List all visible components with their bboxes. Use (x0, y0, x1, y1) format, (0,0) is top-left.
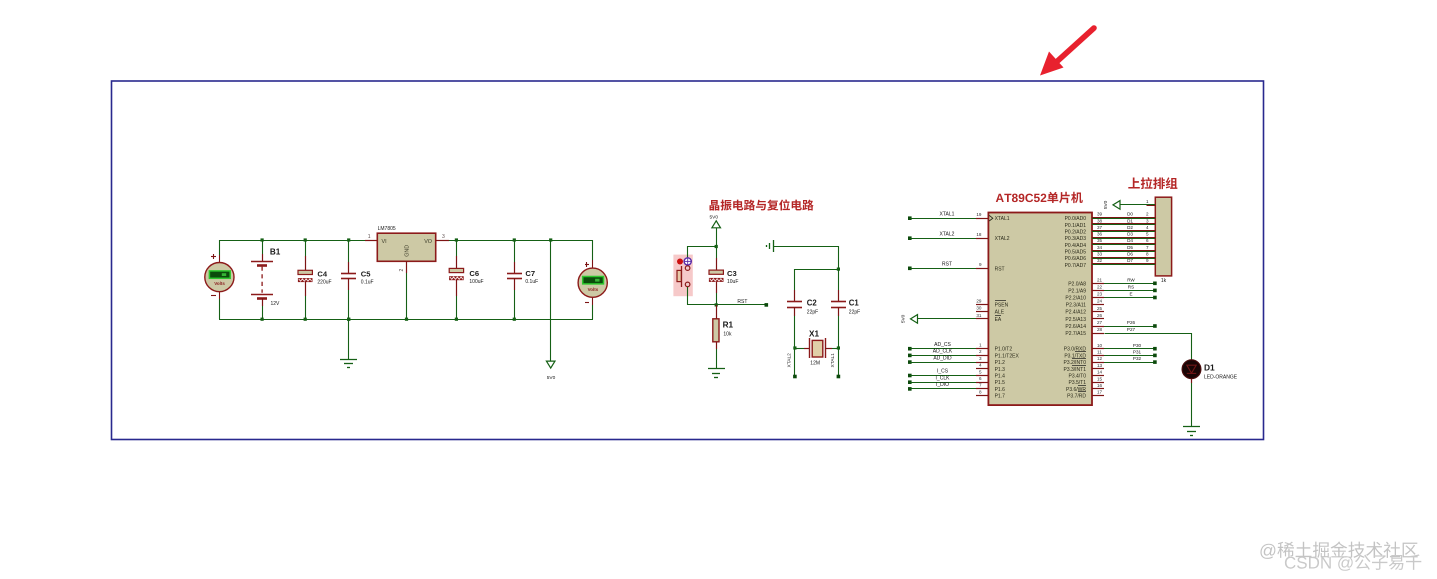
svg-text:RS: RS (1128, 285, 1134, 290)
svg-text:1: 1 (979, 343, 982, 348)
svg-text:0.1uF: 0.1uF (361, 280, 374, 286)
node XTAL1 junction (837, 346, 840, 349)
svg-text:D4: D4 (1127, 238, 1133, 243)
MCU inner pin labels (989, 215, 1086, 399)
svg-text:3: 3 (979, 356, 982, 361)
capacitor C3 10uF (electrolytic) (709, 246, 739, 305)
svg-text:5V0: 5V0 (1103, 200, 1109, 209)
svg-text:5V0: 5V0 (710, 215, 719, 221)
svg-text:5: 5 (1146, 232, 1149, 237)
pin P3.6 (16) stub (1092, 383, 1104, 389)
svg-text:17: 17 (1097, 390, 1103, 395)
wire bus D6 (P0.6 to RP1 pin 8) (1092, 252, 1155, 259)
wire XTAL2 down (794, 348, 796, 375)
pin P2.4 (25) stub (1092, 306, 1104, 312)
pin P3.4 (14) stub (1092, 370, 1104, 376)
voltage regulator U LM7805 (365, 226, 449, 321)
svg-text:12M: 12M (810, 361, 820, 367)
svg-text:C4: C4 (317, 269, 327, 278)
pin RP1-1 wire to 5V0 (1103, 199, 1155, 209)
crystal X1 12M (795, 330, 838, 367)
svg-text:P0.1/AD1: P0.1/AD1 (1065, 223, 1087, 229)
svg-text:4: 4 (1146, 225, 1149, 230)
svg-text:37: 37 (1097, 225, 1103, 230)
svg-text:D2: D2 (1127, 225, 1133, 230)
svg-text:X1: X1 (809, 330, 819, 339)
svg-text:P2.2/A10: P2.2/A10 (1065, 296, 1086, 302)
svg-text:P2.1/A9: P2.1/A9 (1068, 288, 1086, 294)
pin XTAL1 (19) wire (908, 216, 912, 220)
pin PSEN (29) stub (976, 304, 988, 306)
svg-text:Volts: Volts (588, 287, 599, 292)
svg-text:P1.0/T2: P1.0/T2 (995, 347, 1013, 353)
svg-text:2: 2 (399, 269, 405, 272)
svg-text:24: 24 (1097, 299, 1103, 304)
pin EA (31) wire to 5V0 (901, 313, 989, 323)
svg-text:P1.2: P1.2 (995, 360, 1006, 366)
svg-text:ALE: ALE (995, 310, 1005, 316)
svg-text:36: 36 (1097, 232, 1103, 237)
pin RST (9) wire (908, 267, 912, 271)
svg-text:XTAL1: XTAL1 (995, 216, 1010, 222)
schematic sheet border frame (112, 81, 1264, 440)
svg-text:C7: C7 (525, 269, 535, 278)
svg-text:1: 1 (1146, 199, 1149, 204)
svg-text:E: E (1129, 292, 1132, 297)
svg-text:RW: RW (1127, 277, 1135, 282)
svg-text:P2.0/A8: P2.0/A8 (1068, 281, 1086, 287)
svg-text:AD_CLK: AD_CLK (933, 349, 953, 355)
pin P1.3 (4) wire (976, 368, 988, 370)
svg-text:P0.2/AD2: P0.2/AD2 (1065, 230, 1087, 236)
svg-text:100uF: 100uF (469, 279, 483, 285)
svg-text:C6: C6 (469, 269, 479, 278)
power flag 5V0 (up) (710, 215, 721, 247)
svg-text:P2.3/A11: P2.3/A11 (1066, 303, 1086, 309)
svg-text:P0.4/AD4: P0.4/AD4 (1065, 243, 1087, 249)
ground (crystal circuit, rotated) (767, 240, 839, 252)
svg-text:P2.6/A14: P2.6/A14 (1065, 324, 1086, 330)
svg-text:2: 2 (979, 349, 982, 354)
section title: crystal and reset circuit (710, 199, 814, 210)
svg-text:P32: P32 (1133, 356, 1142, 361)
watermark csdn (1285, 554, 1421, 570)
pin P3.7 (17) stub (1092, 390, 1104, 396)
wire bus D1 (P0.1 to RP1 pin 3) (1092, 218, 1155, 224)
pin P3.3 (13) stub (1092, 363, 1104, 369)
svg-text:P1.4: P1.4 (995, 374, 1006, 380)
svg-text:21: 21 (1097, 277, 1103, 282)
svg-text:I_CS: I_CS (937, 369, 949, 375)
svg-text:XTAL2: XTAL2 (940, 231, 955, 237)
pin P3.2 (12) wire P32 (1092, 356, 1157, 364)
svg-text:18: 18 (976, 232, 982, 237)
pin P1.5 (6) wire (908, 380, 912, 384)
svg-text:6: 6 (979, 376, 982, 381)
svg-text:10k: 10k (723, 332, 732, 338)
svg-text:32: 32 (1097, 258, 1103, 263)
svg-text:P31: P31 (1133, 350, 1142, 355)
pull-up pack title 上拉排组 (1128, 177, 1177, 189)
svg-text:P27: P27 (1127, 327, 1136, 332)
svg-text:LM7805: LM7805 (378, 226, 396, 232)
svg-text:10: 10 (1097, 343, 1103, 348)
svg-text:GND: GND (405, 245, 411, 257)
terminal XTAL2 (793, 375, 797, 379)
MCU title AT89C52 (996, 192, 1083, 203)
svg-text:Volts: Volts (214, 281, 225, 286)
ground (reset circuit) (708, 368, 725, 370)
pin P1.1 (2) wire (908, 354, 912, 358)
svg-text:4: 4 (979, 363, 982, 368)
svg-text:D1: D1 (1127, 218, 1133, 223)
svg-text:9: 9 (979, 262, 982, 267)
svg-text:P3.3/INT1: P3.3/INT1 (1063, 367, 1086, 373)
svg-text:9: 9 (1146, 258, 1149, 263)
wire +12V top rail (219, 240, 377, 242)
svg-text:P2.4/A12: P2.4/A12 (1065, 310, 1086, 316)
svg-text:C1: C1 (849, 298, 860, 307)
svg-text:10uF: 10uF (727, 279, 738, 285)
svg-text:LED-ORANGE: LED-ORANGE (1204, 374, 1238, 380)
pin P3.5 (15) stub (1092, 376, 1104, 382)
svg-text:RST: RST (737, 299, 747, 305)
svg-text:EA: EA (995, 317, 1002, 323)
svg-text:14: 14 (1097, 370, 1103, 375)
terminal RST (765, 303, 769, 307)
svg-text:33: 33 (1097, 252, 1103, 257)
svg-text:5: 5 (979, 369, 982, 374)
svg-text:XTAL1: XTAL1 (940, 211, 955, 217)
svg-text:22: 22 (1097, 285, 1103, 290)
svg-text:D6: D6 (1127, 252, 1133, 257)
svg-text:19: 19 (976, 212, 982, 217)
pin ALE (30) stub (976, 311, 988, 313)
svg-text:B1: B1 (270, 247, 281, 256)
svg-text:P0.7/AD7: P0.7/AD7 (1065, 263, 1087, 269)
svg-text:P1.1/T2EX: P1.1/T2EX (995, 353, 1020, 359)
pin P1.4 (5) wire (908, 374, 912, 378)
node 5V junction (715, 245, 718, 248)
capacitor C6 100uF (electrolytic) (449, 238, 483, 320)
wire bus D3 (P0.3 to RP1 pin 5) (1092, 232, 1155, 239)
node C1 top junction (837, 268, 840, 271)
pin P2.2 (23) wire E (1092, 292, 1157, 300)
svg-text:P2.7/A15: P2.7/A15 (1065, 331, 1086, 337)
svg-text:12: 12 (1097, 356, 1103, 361)
svg-text:I_CLK: I_CLK (936, 375, 951, 381)
pin P3.0 (10) wire P30 (1092, 343, 1157, 351)
pin P3.1 (11) wire P31 (1092, 350, 1157, 358)
wire 5V node to button (688, 246, 717, 248)
ground (power rail) (340, 318, 357, 368)
pin P2.6 (27) wire P26 (1092, 320, 1157, 328)
pin XTAL2 (18) wire (908, 236, 912, 240)
svg-text:1: 1 (368, 234, 371, 240)
wire +5V top rail (LM7805 output) (443, 240, 593, 242)
svg-text:22pF: 22pF (807, 310, 818, 316)
svg-text:D1: D1 (1204, 363, 1215, 373)
svg-text:30: 30 (976, 306, 982, 311)
svg-text:8: 8 (1146, 252, 1149, 257)
svg-text:C2: C2 (807, 298, 818, 307)
svg-text:D3: D3 (1127, 232, 1133, 237)
wire bus D7 (P0.7 to RP1 pin 9) (1092, 258, 1155, 264)
wire crystal top node (795, 246, 839, 270)
pin P2.5 (26) stub (1092, 313, 1104, 319)
svg-text:RST: RST (942, 262, 952, 268)
pin P2.7 (28) wire P27 (1092, 327, 1192, 359)
svg-text:XTAL2: XTAL2 (995, 236, 1010, 242)
capacitor C7 0.1uF (507, 238, 538, 320)
svg-text:AD_DID: AD_DID (933, 355, 952, 361)
resistor pack RP1 body (1155, 197, 1171, 276)
svg-text:5V0: 5V0 (901, 314, 907, 323)
svg-text:35: 35 (1097, 238, 1103, 243)
pin P2.1 (22) wire RS (1092, 285, 1157, 293)
svg-text:5V0: 5V0 (547, 375, 556, 381)
node RST junction (715, 303, 718, 306)
svg-text:8: 8 (979, 389, 982, 394)
svg-text:15: 15 (1097, 376, 1103, 381)
svg-text:C5: C5 (361, 269, 371, 278)
svg-text:C3: C3 (727, 269, 737, 278)
power flag 5V0 (down) (546, 238, 555, 381)
svg-text:RST: RST (995, 266, 1005, 272)
wire RST to terminal (716, 304, 766, 306)
capacitor C2 22pF (787, 269, 818, 348)
svg-text:23: 23 (1097, 292, 1103, 297)
svg-text:7: 7 (1146, 245, 1149, 250)
svg-text:7: 7 (979, 383, 982, 388)
svg-text:P30: P30 (1133, 343, 1142, 348)
svg-text:P0.5/AD5: P0.5/AD5 (1065, 249, 1087, 255)
wire bus D2 (P0.2 to RP1 pin 4) (1092, 225, 1155, 232)
svg-text:28: 28 (1097, 327, 1103, 332)
svg-text:D0: D0 (1127, 212, 1133, 217)
svg-text:12V: 12V (271, 301, 281, 307)
svg-text:6: 6 (1146, 238, 1149, 243)
svg-text:PSEN: PSEN (995, 303, 1009, 309)
svg-text:P3.4/T0: P3.4/T0 (1068, 374, 1086, 380)
svg-text:VO: VO (424, 239, 432, 245)
svg-text:R1: R1 (723, 321, 734, 330)
svg-text:P1.6: P1.6 (995, 387, 1006, 393)
pin P1.0 (1) wire (908, 347, 912, 351)
svg-text:XTAL2: XTAL2 (786, 353, 792, 368)
svg-text:0.1uF: 0.1uF (525, 279, 538, 285)
pin P2.0 (21) wire RW (1092, 277, 1157, 285)
svg-text:39: 39 (1097, 212, 1103, 217)
svg-text:P2.5/A13: P2.5/A13 (1065, 317, 1086, 323)
svg-text:I_DIO: I_DIO (936, 382, 949, 388)
pin P2.3 (24) stub (1092, 299, 1104, 305)
wire ground bottom rail (219, 319, 593, 321)
voltmeter VM1 (12V side) (205, 240, 234, 319)
svg-text:16: 16 (1097, 383, 1103, 388)
pin P1.2 (3) wire (908, 360, 912, 364)
capacitor C4 220uF (electrolytic) (298, 238, 332, 320)
svg-text:22pF: 22pF (849, 310, 860, 316)
svg-text:29: 29 (976, 298, 982, 303)
svg-text:P3.7/RD: P3.7/RD (1067, 394, 1086, 400)
battery B1 (251, 238, 281, 320)
wire bus D0 (P0.0 to RP1 pin 2) (1092, 212, 1155, 219)
MCU U1 AT89C52 body (988, 213, 1092, 406)
svg-text:P0.0/AD0: P0.0/AD0 (1065, 216, 1087, 222)
svg-text:11: 11 (1097, 350, 1102, 355)
svg-text:P1.7: P1.7 (995, 394, 1006, 400)
svg-text:D7: D7 (1127, 258, 1133, 263)
svg-text:P1.5: P1.5 (995, 380, 1006, 386)
svg-text:220uF: 220uF (317, 280, 331, 286)
svg-text:13: 13 (1097, 363, 1103, 368)
svg-text:P0.6/AD6: P0.6/AD6 (1065, 256, 1087, 262)
svg-text:AD_CS: AD_CS (934, 342, 951, 348)
watermark juejin (1260, 542, 1417, 559)
svg-text:3: 3 (442, 234, 445, 240)
svg-text:P0.3/AD3: P0.3/AD3 (1065, 236, 1087, 242)
svg-text:VI: VI (382, 239, 387, 245)
LED D1 LED-ORANGE (1182, 359, 1238, 427)
svg-text:D5: D5 (1127, 245, 1133, 250)
pin P1.6 (7) wire (908, 387, 912, 391)
svg-text:34: 34 (1097, 245, 1103, 250)
capacitor C1 22pF (831, 269, 860, 348)
svg-text:1k: 1k (1161, 278, 1167, 284)
resistor R1 10k (713, 305, 734, 368)
svg-text:P26: P26 (1127, 320, 1136, 325)
red annotation arrow (1040, 28, 1094, 76)
wire bus D4 (P0.4 to RP1 pin 6) (1092, 238, 1155, 244)
svg-text:2: 2 (1146, 212, 1149, 217)
svg-text:27: 27 (1097, 320, 1103, 325)
pin P1.7 (8) wire (976, 395, 988, 397)
svg-text:31: 31 (976, 313, 982, 318)
svg-text:XTAL1: XTAL1 (830, 353, 836, 368)
push button (selected, highlighted) (673, 246, 692, 305)
svg-text:P1.3: P1.3 (995, 367, 1006, 373)
terminal XTAL1 (837, 375, 841, 379)
svg-text:3: 3 (1146, 218, 1149, 223)
capacitor C5 0.1uF (341, 238, 374, 320)
wire button to RST node (688, 304, 717, 306)
ground (LED) (1183, 426, 1200, 428)
svg-text:P3.6/WR: P3.6/WR (1066, 387, 1086, 393)
wire XTAL1 down (838, 348, 840, 375)
svg-text:25: 25 (1097, 306, 1103, 311)
voltmeter VM2 (5V side) (578, 240, 607, 319)
wire bus D5 (P0.5 to RP1 pin 7) (1092, 245, 1155, 252)
svg-text:38: 38 (1097, 218, 1103, 223)
node XTAL2 junction (793, 346, 796, 349)
svg-text:26: 26 (1097, 313, 1103, 318)
